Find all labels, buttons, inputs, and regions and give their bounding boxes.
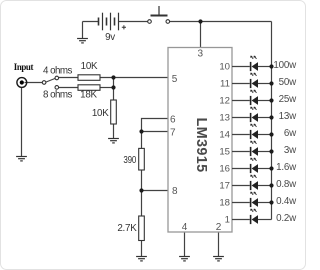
svg-text:11: 11 [220, 78, 230, 89]
svg-text:6: 6 [170, 115, 176, 126]
svg-text:390: 390 [123, 155, 136, 166]
svg-text:0.2w: 0.2w [276, 213, 297, 224]
svg-text:8: 8 [172, 186, 178, 197]
svg-text:4 ohms: 4 ohms [43, 66, 72, 77]
svg-text:3: 3 [198, 49, 204, 60]
svg-text:14: 14 [219, 129, 230, 140]
svg-text:1: 1 [225, 214, 230, 225]
svg-text:100w: 100w [273, 60, 297, 71]
svg-text:10: 10 [219, 61, 230, 72]
svg-text:18: 18 [219, 197, 230, 208]
svg-text:10K: 10K [81, 61, 98, 72]
svg-text:50w: 50w [279, 77, 297, 88]
svg-text:5: 5 [172, 74, 178, 85]
svg-text:2: 2 [216, 222, 222, 233]
svg-text:9v: 9v [105, 32, 115, 43]
svg-text:6w: 6w [284, 128, 297, 139]
svg-text:8 ohms: 8 ohms [43, 90, 72, 101]
svg-text:0.8w: 0.8w [276, 179, 297, 190]
svg-text:LM3915: LM3915 [193, 118, 209, 173]
svg-text:1.6w: 1.6w [276, 162, 297, 173]
svg-text:3w: 3w [284, 145, 297, 156]
svg-text:13w: 13w [279, 111, 297, 122]
svg-text:15: 15 [219, 146, 230, 157]
svg-text:13: 13 [219, 112, 230, 123]
svg-text:25w: 25w [279, 94, 297, 105]
svg-text:4: 4 [182, 222, 188, 233]
svg-text:0.4w: 0.4w [276, 196, 297, 207]
svg-text:2.7K: 2.7K [117, 223, 137, 234]
svg-text:17: 17 [219, 180, 230, 191]
svg-text:12: 12 [219, 95, 230, 106]
svg-text:Input: Input [14, 62, 34, 72]
svg-text:7: 7 [170, 128, 176, 139]
svg-text:16: 16 [219, 163, 230, 174]
svg-text:10K: 10K [92, 108, 109, 119]
svg-text:18K: 18K [80, 90, 97, 101]
